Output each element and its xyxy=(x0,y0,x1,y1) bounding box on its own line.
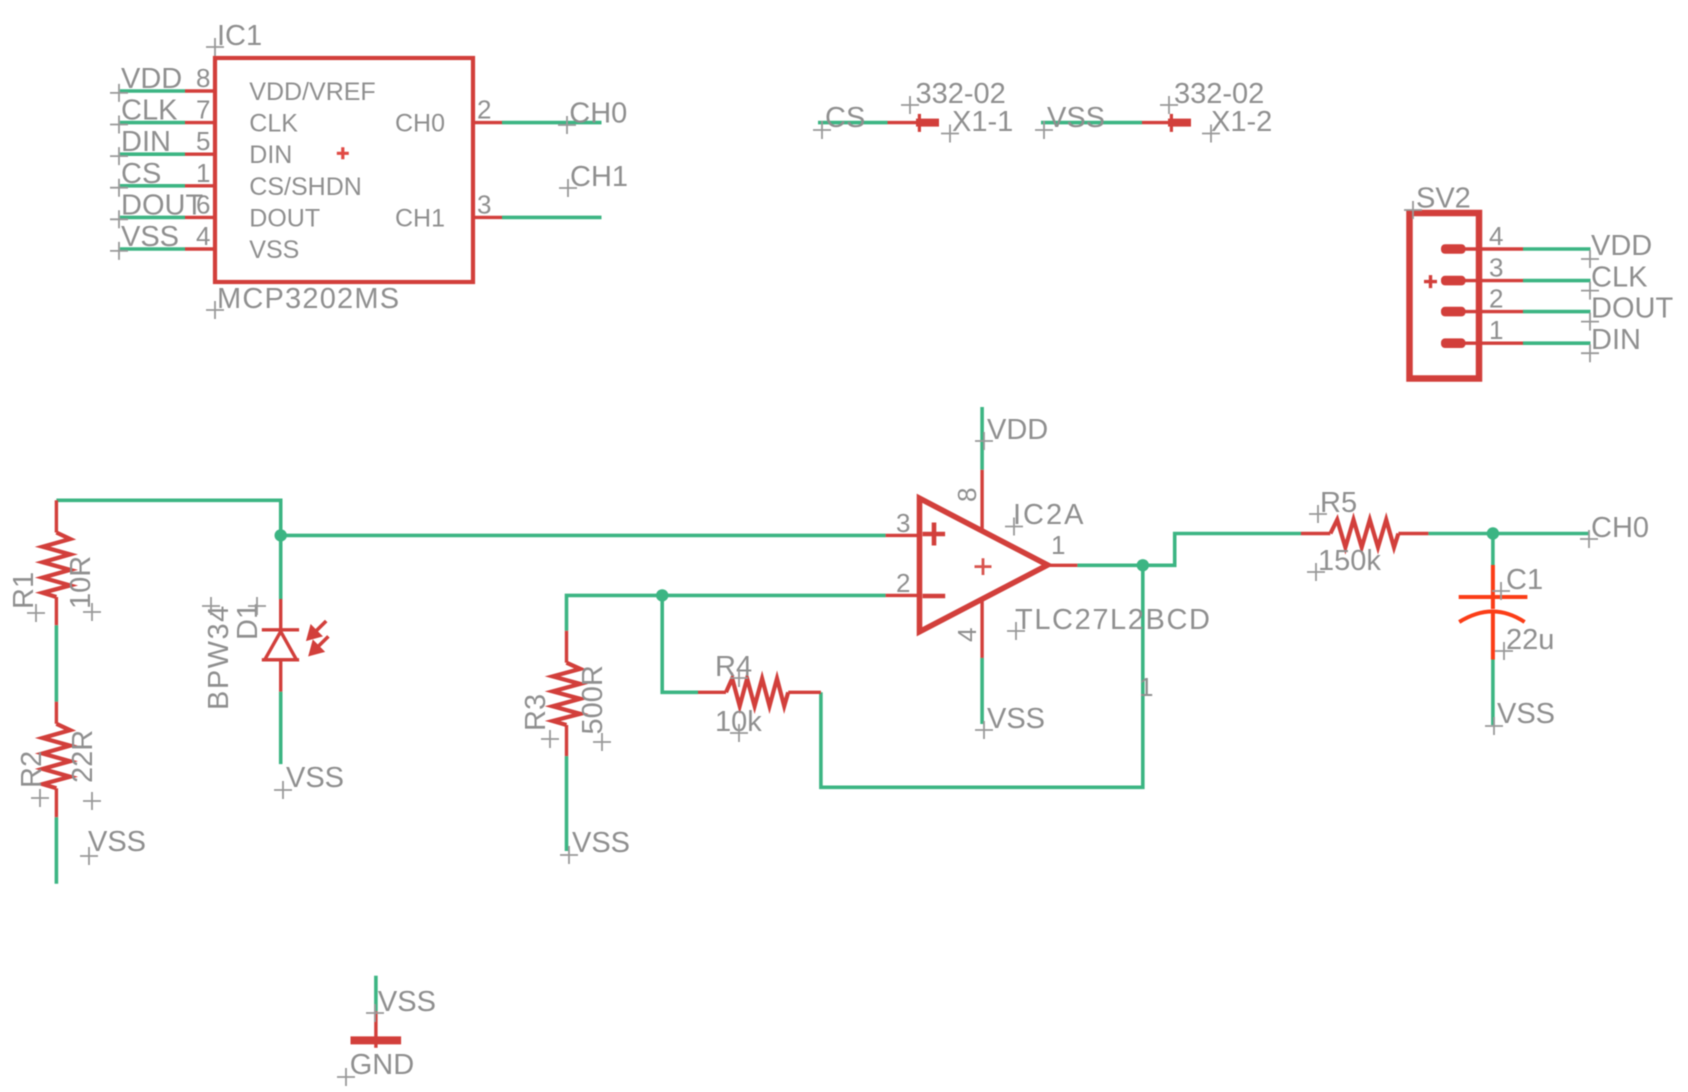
svg-text:MCP3202MS: MCP3202MS xyxy=(217,283,400,315)
svg-text:C1: C1 xyxy=(1506,564,1543,596)
svg-text:8: 8 xyxy=(196,63,210,93)
svg-text:VDD/VREF: VDD/VREF xyxy=(249,78,375,106)
svg-text:4: 4 xyxy=(952,628,982,642)
svg-text:VDD: VDD xyxy=(1591,230,1652,262)
svg-text:3: 3 xyxy=(1489,253,1503,283)
svg-text:TLC27L2BCD: TLC27L2BCD xyxy=(1015,604,1212,636)
svg-text:22u: 22u xyxy=(1506,624,1554,656)
svg-text:VDD: VDD xyxy=(987,414,1048,446)
svg-text:R3: R3 xyxy=(520,694,552,731)
svg-text:DOUT: DOUT xyxy=(249,204,320,232)
svg-text:DOUT: DOUT xyxy=(1591,293,1673,325)
svg-text:500R: 500R xyxy=(577,665,609,734)
svg-text:1: 1 xyxy=(196,158,210,188)
svg-text:CLK: CLK xyxy=(1591,262,1648,294)
svg-text:VSS: VSS xyxy=(121,221,179,253)
svg-text:2: 2 xyxy=(1489,284,1503,314)
svg-text:VSS: VSS xyxy=(88,826,146,858)
svg-text:R1: R1 xyxy=(8,572,40,609)
svg-text:BPW34: BPW34 xyxy=(203,604,235,710)
svg-text:CH0: CH0 xyxy=(569,98,627,130)
svg-text:8: 8 xyxy=(952,488,982,502)
svg-text:CS/SHDN: CS/SHDN xyxy=(249,173,362,201)
svg-text:D1: D1 xyxy=(232,603,264,640)
svg-text:10R: 10R xyxy=(65,556,97,609)
svg-text:2: 2 xyxy=(477,95,491,125)
svg-text:2: 2 xyxy=(896,568,910,598)
svg-text:VSS: VSS xyxy=(1047,102,1105,134)
svg-text:DOUT: DOUT xyxy=(121,189,203,221)
svg-text:150k: 150k xyxy=(1318,545,1381,577)
svg-text:CH0: CH0 xyxy=(1591,512,1649,544)
svg-text:7: 7 xyxy=(196,95,210,125)
svg-text:1: 1 xyxy=(1051,530,1065,560)
svg-text:VSS: VSS xyxy=(987,703,1045,735)
svg-text:22R: 22R xyxy=(67,730,99,783)
svg-text:CLK: CLK xyxy=(121,95,178,127)
svg-text:6: 6 xyxy=(196,189,210,219)
svg-text:VSS: VSS xyxy=(378,986,436,1018)
svg-text:1: 1 xyxy=(1489,315,1503,345)
svg-text:CH0: CH0 xyxy=(395,110,445,138)
svg-text:VSS: VSS xyxy=(249,236,299,264)
svg-text:4: 4 xyxy=(1489,221,1503,251)
svg-text:VSS: VSS xyxy=(1497,698,1555,730)
svg-text:DIN: DIN xyxy=(121,126,171,158)
svg-text:CS: CS xyxy=(825,102,865,134)
svg-text:DIN: DIN xyxy=(249,141,292,169)
svg-text:VDD: VDD xyxy=(121,63,182,95)
svg-text:X1-1: X1-1 xyxy=(952,106,1013,138)
svg-text:CH1: CH1 xyxy=(570,161,628,193)
svg-text:IC2A: IC2A xyxy=(1013,499,1085,531)
svg-text:SV2: SV2 xyxy=(1416,183,1471,215)
svg-text:CLK: CLK xyxy=(249,110,298,138)
svg-text:VSS: VSS xyxy=(572,827,630,859)
svg-text:3: 3 xyxy=(477,189,491,219)
svg-text:VSS: VSS xyxy=(286,762,344,794)
svg-text:CH1: CH1 xyxy=(395,204,445,232)
svg-text:GND: GND xyxy=(350,1049,414,1081)
svg-text:4: 4 xyxy=(196,221,210,251)
svg-text:R2: R2 xyxy=(16,751,48,788)
svg-text:5: 5 xyxy=(196,126,210,156)
svg-text:3: 3 xyxy=(896,508,910,538)
svg-text:X1-2: X1-2 xyxy=(1211,106,1272,138)
svg-text:1: 1 xyxy=(1139,672,1153,702)
svg-text:DIN: DIN xyxy=(1591,324,1641,356)
svg-text:CS: CS xyxy=(121,158,161,190)
